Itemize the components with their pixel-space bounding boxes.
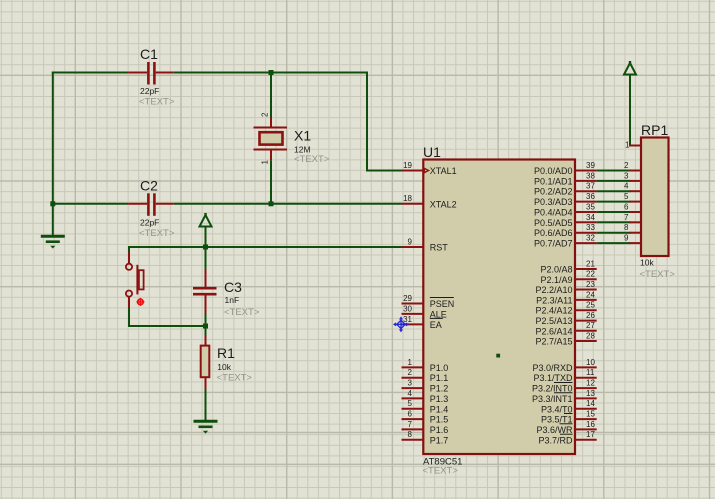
svg-text:P0.4/AD4: P0.4/AD4	[534, 207, 573, 217]
RP1 pin 3	[630, 180, 641, 182]
svg-text:22pF: 22pF	[140, 217, 159, 227]
svg-text:26: 26	[586, 311, 595, 320]
svg-text:7: 7	[624, 213, 629, 222]
wire: top net right of C1	[174, 72, 368, 74]
pin 23 P2.2	[575, 289, 597, 291]
svg-text:P0.2/AD2: P0.2/AD2	[534, 187, 573, 197]
pin 11 P3.1	[575, 377, 597, 379]
svg-text:P1.3: P1.3	[430, 394, 449, 404]
ground (left)	[41, 236, 65, 248]
svg-text:1: 1	[408, 358, 413, 367]
svg-text:P1.1: P1.1	[430, 373, 449, 383]
capacitor C1	[128, 62, 174, 85]
pin 15 P3.5	[575, 418, 597, 420]
svg-text:10: 10	[586, 358, 595, 367]
pin 12 P3.2	[575, 387, 597, 389]
svg-text:<TEXT>: <TEXT>	[139, 97, 175, 108]
RP1 pin 2	[630, 170, 641, 172]
pin 5 P1.4	[402, 408, 424, 410]
pin 4 P1.3	[402, 397, 424, 399]
wire: crystal bottom	[270, 160, 272, 204]
wire P0.1 to RP1 pin 3	[597, 180, 631, 182]
pin 18 XTAL2	[402, 203, 424, 205]
pin 22 P2.1	[575, 278, 597, 280]
svg-text:R1: R1	[217, 345, 235, 361]
pin 1 P1.0	[402, 366, 424, 368]
RP1 pin 4	[630, 190, 641, 192]
push button	[126, 252, 144, 308]
wire: left vertical to ground	[52, 72, 54, 237]
pin 16 P3.6	[575, 428, 597, 430]
RP1 pin 5	[630, 201, 641, 203]
RP1 pin 9	[630, 242, 641, 244]
svg-text:P3.7/RD: P3.7/RD	[538, 435, 573, 445]
junction at left vertical / C2 net	[50, 201, 55, 206]
ground (below R1)	[194, 421, 218, 433]
pin 9 RST	[402, 246, 424, 248]
svg-text:3: 3	[408, 378, 413, 387]
pin 2 P1.1	[402, 377, 424, 379]
svg-text:P2.0/A8: P2.0/A8	[540, 265, 572, 275]
svg-text:2: 2	[408, 368, 413, 377]
power terminal VCC (reset)	[200, 213, 212, 227]
wire: down to button	[128, 246, 130, 253]
svg-text:23: 23	[586, 280, 595, 289]
svg-text:19: 19	[403, 161, 412, 170]
junction top net / crystal	[269, 70, 274, 75]
svg-text:10k: 10k	[640, 258, 654, 268]
svg-text:5: 5	[408, 399, 413, 408]
wire: vertical down to XTAL1	[366, 72, 368, 171]
svg-text:39: 39	[586, 161, 595, 170]
svg-text:1: 1	[625, 141, 630, 150]
pin 25 P2.4	[575, 309, 597, 311]
svg-text:32: 32	[586, 233, 595, 242]
svg-text:P3.2/INT0: P3.2/INT0	[532, 384, 573, 394]
svg-text:22pF: 22pF	[140, 86, 159, 96]
wire: XTAL2 net right of C2	[174, 203, 402, 205]
wire: crystal top	[270, 73, 272, 118]
svg-text:P1.5: P1.5	[430, 415, 449, 425]
svg-text:29: 29	[403, 294, 412, 303]
svg-text:17: 17	[586, 430, 595, 439]
svg-text:14: 14	[586, 399, 595, 408]
svg-text:28: 28	[586, 331, 595, 340]
svg-text:P1.7: P1.7	[430, 435, 449, 445]
wire P0.0 to RP1 pin 2	[597, 170, 631, 172]
wire P0.2 to RP1 pin 4	[597, 190, 631, 192]
op U1 AT89C51 body	[423, 160, 575, 455]
svg-text:RST: RST	[430, 243, 449, 253]
pin 3 P1.2	[402, 387, 424, 389]
svg-text:RP1: RP1	[641, 122, 668, 138]
svg-text:6: 6	[408, 410, 413, 419]
wire: button to bottom net	[128, 308, 130, 328]
pin 32 P0.7	[575, 242, 597, 244]
RP1 pin 1	[629, 145, 641, 147]
svg-text:35: 35	[586, 202, 595, 211]
svg-text:C3: C3	[224, 279, 242, 295]
svg-text:P0.7/AD7: P0.7/AD7	[534, 239, 573, 249]
wire: R1 to ground	[205, 389, 207, 422]
wire: RST net	[129, 246, 402, 248]
svg-text:9: 9	[408, 237, 413, 246]
svg-text:P2.6/A14: P2.6/A14	[535, 326, 572, 336]
svg-text:P0.5/AD5: P0.5/AD5	[534, 218, 573, 228]
pin 30 ALE	[402, 313, 424, 315]
pin 6 P1.5	[402, 418, 424, 420]
svg-text:8: 8	[624, 223, 629, 232]
svg-text:24: 24	[586, 290, 595, 299]
wire P0.4 to RP1 pin 6	[597, 211, 631, 213]
svg-text:34: 34	[586, 213, 595, 222]
RP1 pin 6	[630, 211, 641, 213]
svg-text:3: 3	[624, 171, 629, 180]
svg-text:15: 15	[586, 410, 595, 419]
svg-text:P2.1/A9: P2.1/A9	[540, 275, 572, 285]
svg-text:6: 6	[624, 202, 629, 211]
svg-text:P1.0: P1.0	[430, 363, 449, 373]
selection mark inside U1	[496, 354, 500, 358]
svg-text:5: 5	[624, 192, 629, 201]
svg-text:7: 7	[408, 420, 413, 429]
svg-text:U1: U1	[423, 144, 441, 160]
crystal X1	[254, 118, 288, 161]
pin 38 P0.1	[575, 180, 597, 182]
wire: into XTAL1 pin	[366, 170, 402, 172]
svg-text:<TEXT>: <TEXT>	[294, 154, 330, 165]
svg-text:2: 2	[261, 112, 270, 117]
svg-text:X1: X1	[294, 128, 311, 144]
pin 19 XTAL1	[402, 170, 424, 172]
svg-text:8: 8	[408, 430, 413, 439]
pin 21 P2.0	[575, 268, 597, 270]
svg-text:P2.3/A11: P2.3/A11	[536, 295, 572, 305]
svg-text:P0.1/AD1: P0.1/AD1	[534, 176, 573, 186]
svg-text:P2.5/A13: P2.5/A13	[535, 316, 572, 326]
pin 10 P3.0	[575, 366, 597, 368]
wire P0.3 to RP1 pin 5	[597, 201, 631, 203]
wire: button bottom to C3/R1	[128, 325, 206, 327]
svg-text:P2.2/A10: P2.2/A10	[535, 285, 572, 295]
svg-text:P3.4/T0: P3.4/T0	[541, 404, 573, 414]
wire: XTAL2 net left of C2	[53, 203, 128, 205]
pin 34 P0.5	[575, 221, 597, 223]
svg-text:C2: C2	[140, 177, 158, 193]
XTAL1 clock arrow	[424, 168, 428, 172]
svg-text:P0.3/AD3: P0.3/AD3	[534, 197, 573, 207]
pin 27 P2.6	[575, 330, 597, 332]
capacitor C3	[193, 270, 217, 313]
svg-text:EA: EA	[430, 320, 442, 330]
wire: power to RP1 pin 1	[629, 75, 631, 146]
wire P0.5 to RP1 pin 7	[597, 221, 631, 223]
pin 35 P0.4	[575, 211, 597, 213]
wire: top net left of C1	[52, 72, 128, 74]
svg-text:P3.0/RXD: P3.0/RXD	[532, 363, 573, 373]
svg-text:<TEXT>: <TEXT>	[139, 228, 175, 239]
svg-text:10k: 10k	[217, 362, 231, 372]
pin 33 P0.6	[575, 232, 597, 234]
svg-text:C1: C1	[140, 46, 158, 62]
pin 29 PSEN	[402, 303, 424, 305]
svg-text:30: 30	[403, 304, 412, 313]
svg-text:1: 1	[261, 160, 270, 165]
pin 24 P2.3	[575, 299, 597, 301]
svg-text:4: 4	[408, 389, 413, 398]
svg-text:XTAL1: XTAL1	[430, 166, 457, 176]
svg-text:P3.5/T1: P3.5/T1	[541, 415, 573, 425]
pin 17 P3.7	[575, 439, 597, 441]
power terminal VCC (RP1)	[624, 61, 636, 75]
svg-text:P1.6: P1.6	[430, 425, 449, 435]
pin 36 P0.3	[575, 201, 597, 203]
svg-text:9: 9	[624, 233, 629, 242]
wire P0.7 to RP1 pin 9	[597, 242, 631, 244]
RP1 pin 8	[630, 232, 641, 234]
pin 28 P2.7	[575, 340, 597, 342]
svg-text:36: 36	[586, 192, 595, 201]
svg-text:2: 2	[624, 161, 629, 170]
svg-text:12: 12	[586, 378, 595, 387]
svg-text:16: 16	[586, 420, 595, 429]
svg-text:21: 21	[586, 259, 595, 268]
pin 26 P2.5	[575, 320, 597, 322]
pin 14 P3.4	[575, 408, 597, 410]
svg-text:P1.4: P1.4	[430, 404, 449, 414]
svg-text:<TEXT>: <TEXT>	[423, 466, 459, 477]
svg-text:31: 31	[403, 315, 412, 324]
svg-text:P3.1/TXD: P3.1/TXD	[533, 373, 573, 383]
capacitor C2	[128, 193, 174, 216]
resistor pack RP1 body	[641, 138, 669, 257]
svg-text:4: 4	[624, 182, 629, 191]
svg-text:18: 18	[403, 194, 412, 203]
svg-text:P0.6/AD6: P0.6/AD6	[534, 228, 573, 238]
resistor R1	[201, 336, 210, 390]
svg-text:<TEXT>: <TEXT>	[224, 307, 260, 318]
svg-text:P3.6/WR: P3.6/WR	[536, 425, 573, 435]
svg-text:37: 37	[586, 182, 595, 191]
button actuation marker	[136, 298, 144, 306]
wire: power to C3	[205, 227, 207, 271]
svg-text:P3.3/INT1: P3.3/INT1	[532, 394, 573, 404]
wire: C3 to R1	[205, 313, 207, 338]
junction C3 / R1	[203, 324, 208, 329]
pin 31 EA	[402, 323, 424, 325]
svg-text:33: 33	[586, 223, 595, 232]
svg-text:27: 27	[586, 321, 595, 330]
junction crystal / XTAL2 net	[269, 201, 274, 206]
svg-text:13: 13	[586, 389, 595, 398]
svg-text:22: 22	[586, 270, 595, 279]
RP1 pin 7	[630, 221, 641, 223]
wire P0.6 to RP1 pin 8	[597, 232, 631, 234]
svg-text:12M: 12M	[294, 145, 311, 155]
svg-text:XTAL2: XTAL2	[430, 199, 457, 209]
svg-text:P1.2: P1.2	[430, 384, 449, 394]
pin 13 P3.3	[575, 397, 597, 399]
svg-text:25: 25	[586, 301, 595, 310]
pin 37 P0.2	[575, 190, 597, 192]
svg-text:11: 11	[586, 368, 595, 377]
svg-text:P2.4/A12: P2.4/A12	[535, 306, 572, 316]
pin 7 P1.6	[402, 428, 424, 430]
svg-text:P2.7/A15: P2.7/A15	[535, 337, 572, 347]
svg-text:<TEXT>: <TEXT>	[640, 269, 676, 280]
junction RST net / C3 column	[203, 245, 208, 250]
svg-text:38: 38	[586, 171, 595, 180]
pin 39 P0.0	[575, 170, 597, 172]
svg-text:<TEXT>: <TEXT>	[217, 372, 253, 383]
svg-text:1nF: 1nF	[225, 295, 240, 305]
pin 8 P1.7	[402, 439, 424, 441]
selection crosshair at pin 31 (EA)	[394, 317, 408, 331]
svg-text:PSEN: PSEN	[430, 299, 455, 309]
svg-text:P0.0/AD0: P0.0/AD0	[534, 166, 573, 176]
